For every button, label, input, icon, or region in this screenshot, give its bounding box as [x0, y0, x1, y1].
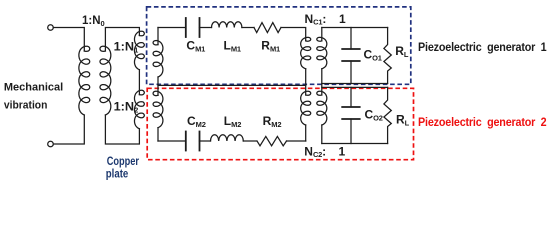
generator 2 bottom rail: left segment [158, 140, 186, 142]
wire: N_C1 secondary top lead [321, 28, 323, 41]
transformer T1 primary winding (1:N0 left coil) [79, 46, 90, 115]
wire: N_C1 secondary to N_C2 secondary link [321, 69, 323, 95]
generator 1 top rail: left segment [158, 27, 186, 29]
wire: top terminal to T1 primary [53, 28, 84, 52]
transformer N_C1 primary winding [301, 37, 311, 68]
svg-text:Mechanical: Mechanical [4, 81, 63, 93]
resistor R_M2 [257, 136, 287, 145]
transformer T2 secondary winding 2 (generator 2 source coil) [153, 91, 163, 128]
inductor L_M2 [211, 135, 244, 141]
capacitor C_O2 plates [342, 106, 360, 108]
wire: L_M1 to R_M1 [242, 27, 254, 29]
transformer N_C2 secondary winding [317, 91, 327, 125]
capacitor C_O1 top lead [350, 28, 352, 50]
wire: C_M1 to L_M1 [200, 27, 212, 29]
wire: C_M2 to L_M2 [200, 140, 211, 142]
svg-text:plate: plate [106, 166, 129, 180]
transformer T2 secondary winding 1 (generator 1 source coil) [153, 41, 163, 78]
resistor R_L (generator 1) [384, 28, 391, 84]
wire: T1 secondary top to T2 primary top [105, 28, 139, 52]
blue dashed box: piezoelectric generator 1 boundary [147, 7, 411, 84]
resistor R_L (generator 2) [384, 87, 391, 143]
wire: L_M2 to R_M2 [243, 140, 256, 142]
svg-text:Piezoelectric generator 1: Piezoelectric generator 1 [418, 40, 547, 54]
generator 1 bottom rail: secondary side [322, 83, 388, 85]
generator 1 top rail: secondary side [322, 27, 388, 29]
wire: R_M1 to N_C1 primary [281, 28, 306, 41]
input terminal top [48, 25, 54, 31]
capacitor C_M1 plate right [199, 18, 201, 37]
wire: N_C2 primary bottom lead [305, 125, 307, 141]
transformer T1 secondary winding (1:N0 right coil) [100, 46, 111, 115]
red dashed box: piezoelectric generator 2 boundary [147, 88, 413, 159]
inductor L_M1 [212, 22, 242, 28]
generator 2 top rail: secondary side [322, 86, 388, 88]
transformer N_C2 primary winding [301, 91, 311, 125]
middle shared rail (gen1 bottom / gen2 top, primary side) [158, 84, 306, 86]
svg-text:1: 1 [339, 12, 346, 26]
wire: N_C1 primary to N_C2 primary link [305, 69, 307, 95]
transformer T2 primary winding lower section (1:N2) [135, 90, 145, 129]
wire: T2 secondary series link crossing middle rail [157, 77, 159, 95]
capacitor C_O1 plates [342, 48, 360, 50]
generator 2 bottom rail: secondary side [322, 143, 388, 145]
capacitor C_M2 plate right [199, 132, 201, 151]
capacitor C_M2 plate left [185, 132, 187, 151]
input terminal bottom [48, 141, 54, 147]
svg-text:vibration: vibration [4, 100, 48, 112]
wire: T2 primary inter-coil link [138, 70, 140, 95]
wire: bottom terminal to T1 primary [53, 115, 84, 144]
resistor R_M1 [254, 23, 281, 33]
capacitor C_M1 plate left [185, 18, 187, 37]
wire: T2 secondary 1 top lead [157, 28, 159, 45]
wire: T1 secondary bottom to T2 primary bottom [105, 115, 139, 144]
wire: R_M2 to N_C2 primary [287, 140, 306, 142]
transformer N_C1 secondary winding [317, 37, 327, 68]
svg-text:1: 1 [339, 144, 346, 158]
svg-text:Piezoelectric generator 2: Piezoelectric generator 2 [418, 115, 547, 129]
capacitor C_O2 bottom lead [350, 119, 352, 144]
capacitor C_O2 top lead [350, 87, 352, 107]
capacitor C_O1 bottom lead [350, 61, 352, 84]
wire: T2 secondary 2 bottom lead [157, 128, 159, 141]
transformer T2 primary winding upper section (1:N1) [135, 31, 145, 69]
wire: N_C2 secondary bottom lead [321, 125, 323, 144]
